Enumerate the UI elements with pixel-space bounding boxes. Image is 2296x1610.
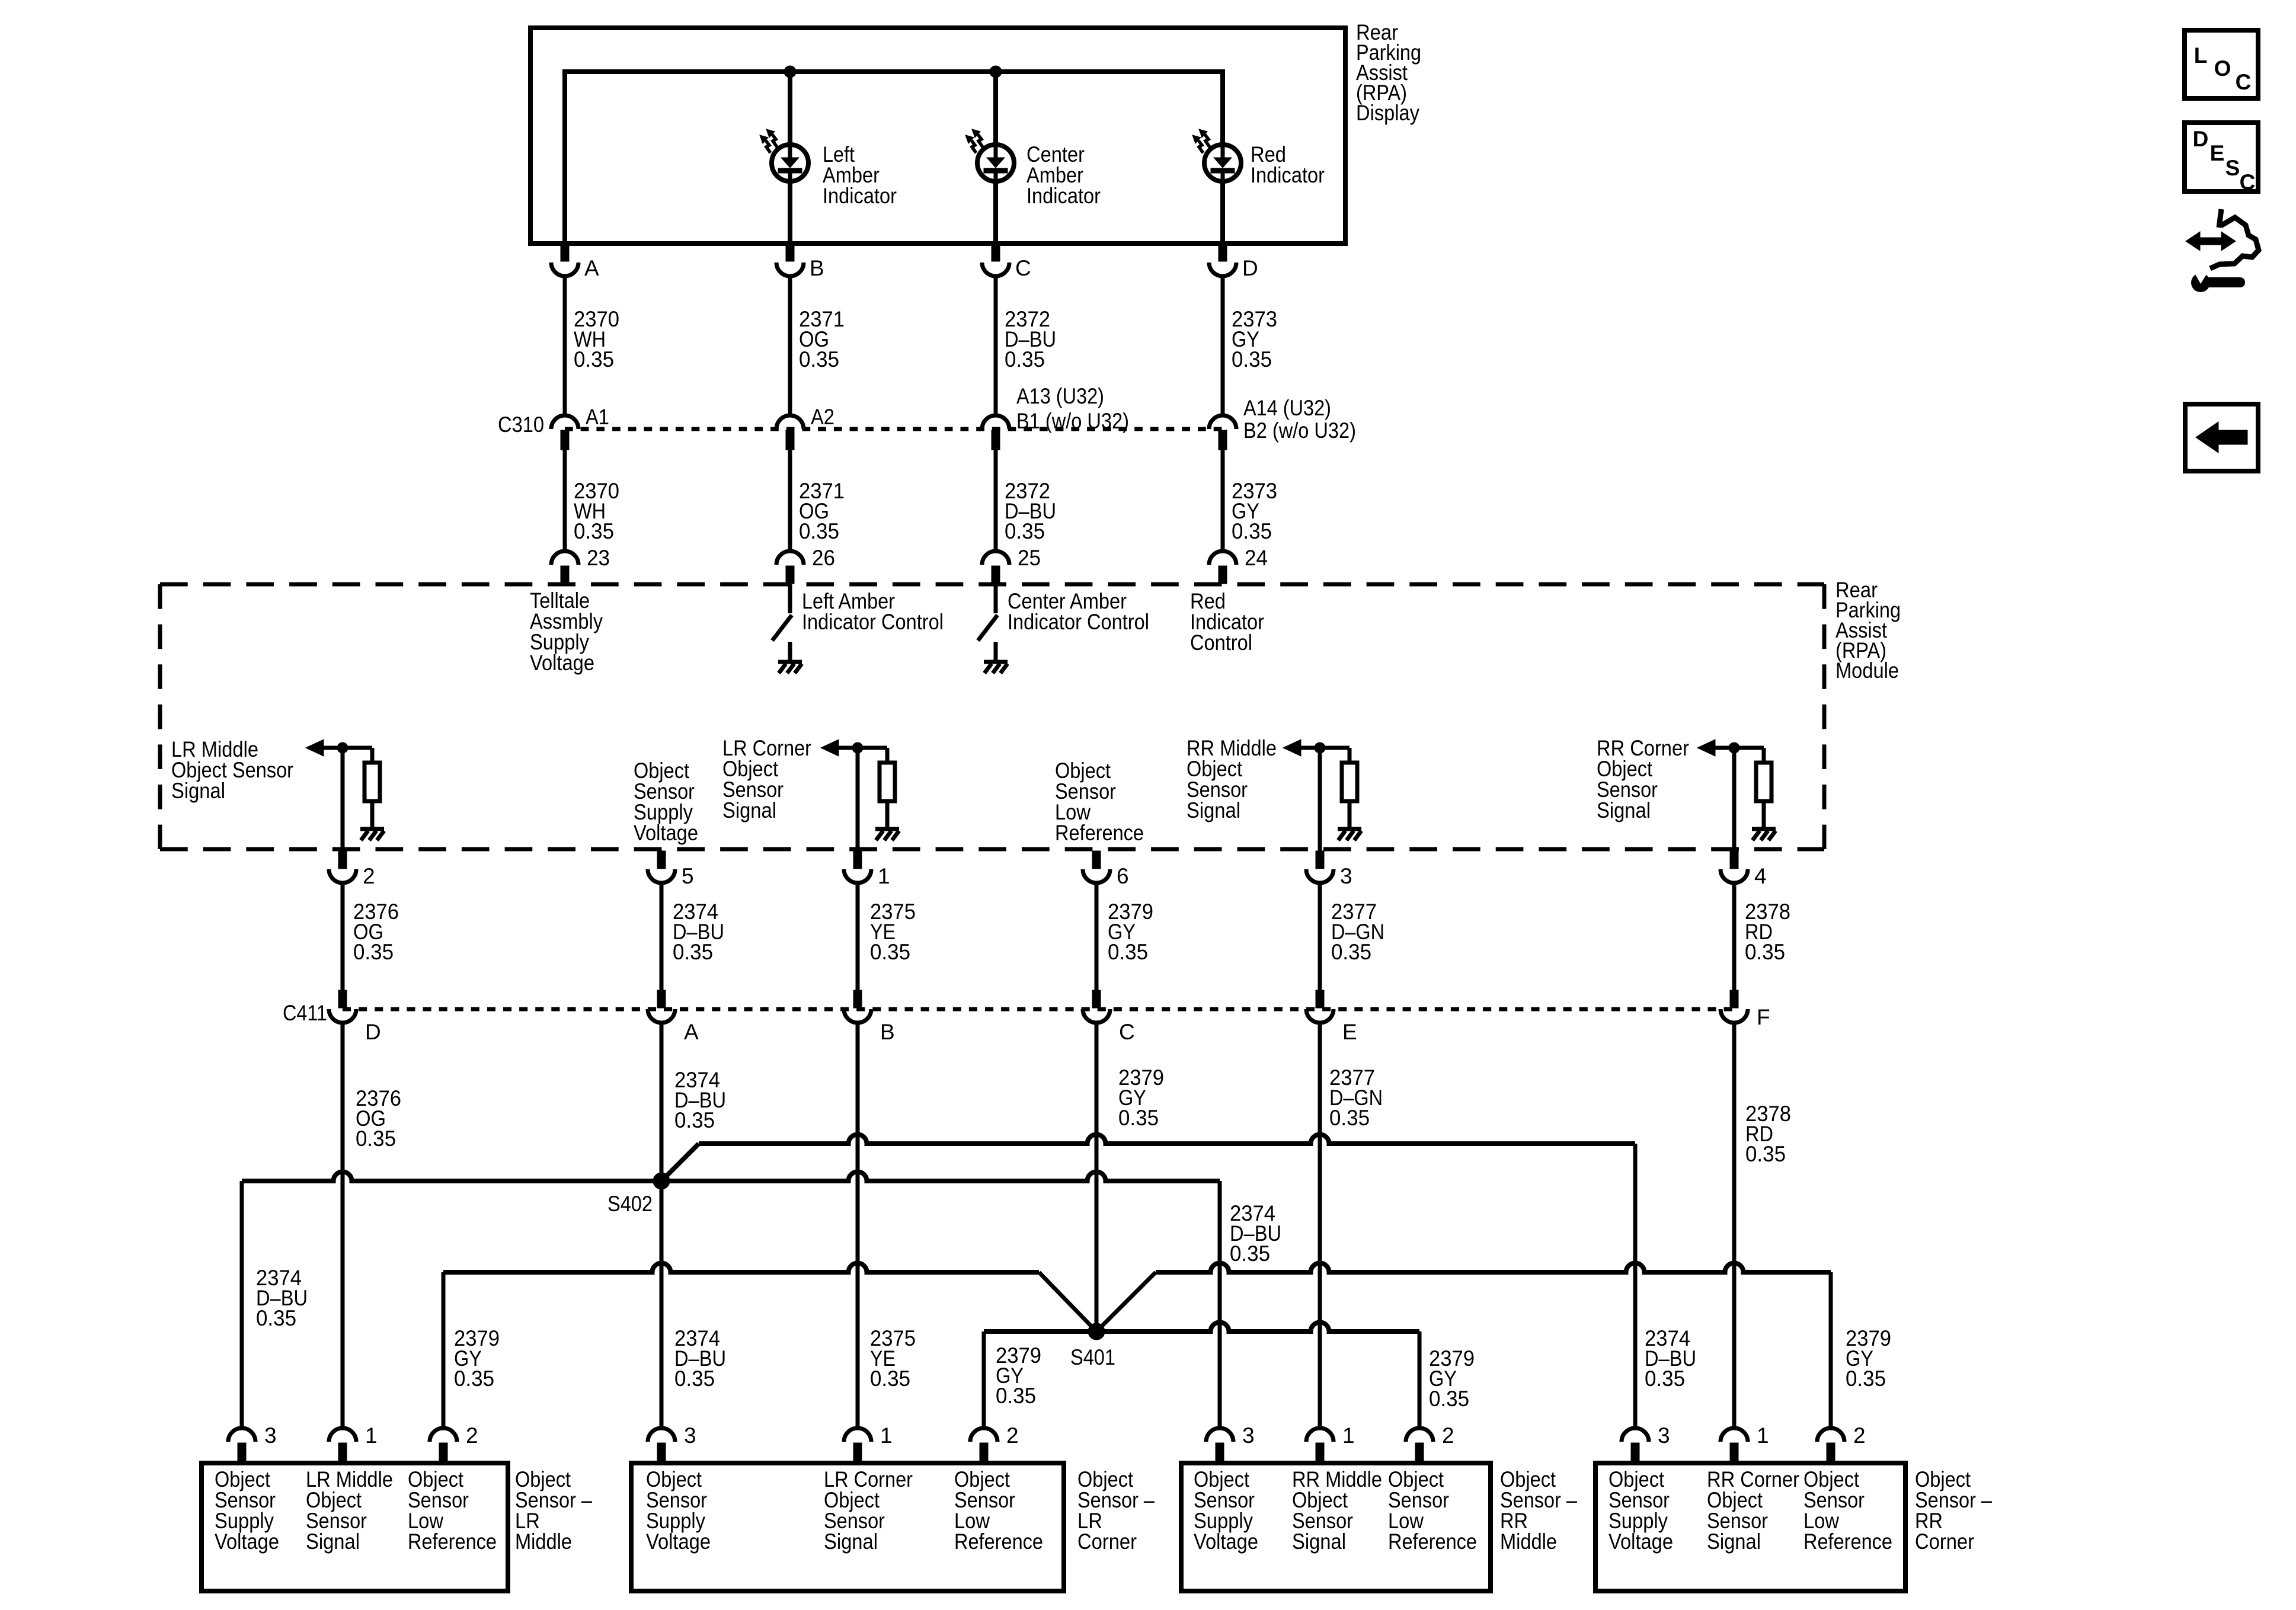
sensor signal arrow at x=2227 [1283, 740, 1301, 756]
sensor box pin 3 at x=1116 [648, 1428, 675, 1442]
svg-text:A1: A1 [586, 405, 609, 429]
svg-text:Signal: Signal [171, 779, 225, 803]
wire C C411 to splice S401 [1095, 1023, 1099, 1331]
svg-text:Corner: Corner [1077, 1529, 1137, 1554]
svg-text:0.35: 0.35 [1230, 1241, 1270, 1266]
sensor signal node at x=2926 [1729, 742, 1739, 753]
diagnostic icon wrench [2191, 273, 2210, 292]
svg-text:23: 23 [587, 546, 610, 570]
svg-text:D: D [1242, 256, 1258, 280]
ground symbol under resistor x=1447 [875, 827, 899, 831]
sensor box pin 1 at x=578 [329, 1428, 356, 1442]
wire below C310 at x=2063 [1221, 450, 1225, 551]
low reference bus line right part [1156, 1263, 1831, 1273]
display connector pin B [786, 246, 794, 261]
resistor at x=2926 [1762, 748, 1766, 763]
sensor signal arrow at x=1447 [821, 740, 839, 756]
svg-text:1: 1 [1757, 1423, 1769, 1448]
upper supply bus line to RR corner [699, 1135, 1635, 1144]
wire left amber upper [788, 69, 792, 144]
svg-text:E: E [1342, 1020, 1357, 1044]
module bottom pin 1 [853, 851, 862, 869]
svg-text:0.35: 0.35 [356, 1126, 396, 1151]
wire from module pin 1 down [856, 883, 860, 990]
wire from module pin 6 down [1095, 883, 1099, 990]
connector C310 pin at x=1680 [982, 415, 1009, 429]
svg-text:Control: Control [1190, 630, 1252, 655]
wire below C310 at x=1333 [788, 450, 792, 551]
connector C411 pin A [657, 990, 666, 1008]
svg-text:3: 3 [1658, 1423, 1670, 1448]
svg-text:Signal: Signal [722, 798, 776, 822]
svg-text:D: D [365, 1020, 381, 1044]
switch at x=1680 [994, 584, 998, 613]
svg-text:Signal: Signal [1292, 1529, 1346, 1554]
svg-text:Voltage: Voltage [634, 821, 698, 845]
svg-text:Voltage: Voltage [1194, 1529, 1258, 1554]
svg-text:0.35: 0.35 [1745, 1142, 1786, 1166]
wire from module pin 3 down [1318, 883, 1322, 990]
svg-text:4: 4 [1754, 864, 1767, 888]
DESC icon box [2185, 123, 2258, 191]
ground lead under switch x=1680 [994, 642, 998, 660]
svg-text:0.35: 0.35 [454, 1366, 494, 1391]
svg-text:0.35: 0.35 [996, 1384, 1036, 1408]
svg-text:1: 1 [880, 1423, 893, 1448]
sensor box pin 3 at x=408 [228, 1428, 255, 1442]
svg-text:1: 1 [1342, 1423, 1355, 1448]
signal wire down to module pin x=2227 [1318, 748, 1322, 851]
diagnostic icon double arrow [2186, 232, 2236, 251]
wire from module pin 4 down [1732, 883, 1737, 990]
svg-text:2: 2 [1006, 1423, 1019, 1448]
supply branch down to RR middle pin 3 [1218, 1181, 1222, 1426]
node bus-B [784, 66, 796, 78]
svg-text:C411: C411 [283, 1001, 327, 1025]
svg-text:Signal: Signal [1187, 798, 1240, 822]
module bottom pin 2 [338, 851, 347, 869]
svg-text:Reference: Reference [1388, 1529, 1477, 1554]
LED left amber [772, 145, 808, 181]
svg-text:0.35: 0.35 [1329, 1106, 1370, 1130]
svg-text:24: 24 [1245, 546, 1268, 570]
svg-text:Signal: Signal [1597, 798, 1651, 822]
ground symbol under resistor x=2227 [1338, 827, 1361, 831]
sensor box pin 1 at x=2227 [1306, 1428, 1334, 1442]
svg-text:A: A [684, 1020, 699, 1044]
svg-text:0.35: 0.35 [256, 1306, 296, 1330]
sensor box pin 2 at x=1660 [970, 1428, 997, 1442]
svg-text:Middle: Middle [1500, 1529, 1557, 1554]
svg-text:Indicator Control: Indicator Control [802, 610, 944, 634]
svg-text:S: S [2225, 156, 2240, 180]
svg-text:Middle: Middle [515, 1529, 572, 1554]
ground symbol under switch x=1333 [778, 660, 802, 664]
svg-text:D: D [2193, 127, 2209, 151]
svg-text:2: 2 [363, 864, 375, 888]
resistor at x=1447 [885, 748, 890, 763]
module pin 24 [1209, 551, 1236, 565]
svg-text:0.35: 0.35 [574, 347, 614, 372]
svg-text:5: 5 [682, 864, 694, 888]
svg-text:Reference: Reference [954, 1529, 1043, 1554]
svg-text:S402: S402 [607, 1192, 653, 1216]
low reference branch down to RR corner pin 2 [1829, 1272, 1833, 1426]
svg-text:1: 1 [365, 1423, 378, 1448]
resistor at x=578 [370, 748, 375, 763]
wire 2371 upper segment B [788, 275, 792, 415]
module pin 23 [551, 551, 578, 565]
svg-text:Indicator: Indicator [1027, 184, 1101, 208]
signal wire down to module pin x=1447 [856, 748, 860, 851]
svg-text:A: A [584, 256, 599, 280]
svg-text:B: B [880, 1020, 895, 1044]
svg-text:0.35: 0.35 [674, 1108, 715, 1132]
display connector pin C [992, 246, 1000, 261]
sensor signal node at x=1447 [852, 742, 863, 753]
svg-text:B: B [810, 256, 824, 280]
svg-text:Signal: Signal [824, 1529, 878, 1554]
svg-text:2: 2 [1442, 1423, 1454, 1448]
wire from module pin 5 down [660, 883, 664, 990]
svg-text:B1 (w/o U32): B1 (w/o U32) [1016, 409, 1129, 433]
splice S402 [653, 1173, 670, 1189]
switch at x=1333 [788, 584, 792, 613]
low reference bus line left part [443, 1263, 1039, 1273]
svg-text:Signal: Signal [1707, 1529, 1761, 1554]
svg-text:S401: S401 [1070, 1345, 1115, 1369]
svg-text:Indicator Control: Indicator Control [1008, 610, 1149, 634]
svg-text:0.35: 0.35 [1118, 1106, 1159, 1130]
svg-text:3: 3 [1340, 864, 1352, 888]
svg-text:3: 3 [264, 1423, 277, 1448]
wire E C411 to RR middle pin 1 [1318, 1023, 1322, 1426]
low reference line S401 to LR corner pin 2 [984, 1329, 1096, 1334]
signal wire down to module pin x=2926 [1732, 748, 1737, 851]
low reference branch down to LR middle pin 2 [442, 1272, 446, 1426]
wire D C411 to LR middle sensor pin 1 [341, 1023, 345, 1426]
signal wire down to module pin x=578 [341, 748, 345, 851]
svg-text:Indicator: Indicator [1251, 163, 1325, 187]
svg-text:0.35: 0.35 [799, 519, 839, 543]
sensor signal arrow at x=578 [306, 740, 324, 756]
sensor signal node at x=578 [337, 742, 348, 753]
node bus-C [990, 66, 1002, 78]
connector C310 dashed line [565, 427, 1223, 431]
svg-text:1: 1 [878, 864, 890, 888]
svg-text:Reference: Reference [408, 1529, 497, 1554]
svg-text:0.35: 0.35 [1232, 347, 1272, 372]
wire B C411 to LR corner pin 1 [856, 1023, 860, 1426]
connector C411 pin F [1730, 990, 1738, 1008]
svg-text:0.35: 0.35 [1645, 1366, 1685, 1391]
svg-text:0.35: 0.35 [1005, 519, 1045, 543]
svg-text:C: C [1119, 1020, 1135, 1044]
module bottom pin 4 [1730, 851, 1738, 869]
wire red lower [1220, 181, 1225, 244]
supply bus line through S402 [242, 1172, 1220, 1182]
supply branch down to LR middle pin 3 [240, 1181, 244, 1426]
low reference bus diagonal from S401 right [1096, 1272, 1156, 1331]
svg-text:L: L [2194, 43, 2208, 68]
display supply bus wire [565, 69, 1223, 74]
sensor box outline [1595, 1463, 1905, 1591]
svg-text:3: 3 [1242, 1423, 1255, 1448]
connector C411 pin E [1316, 990, 1324, 1008]
LED red [1204, 145, 1241, 181]
svg-text:0.35: 0.35 [1331, 940, 1371, 964]
ground lead under switch x=1333 [788, 642, 792, 660]
connector C411 pin D [338, 990, 347, 1008]
svg-text:Indicator: Indicator [823, 184, 897, 208]
svg-text:0.35: 0.35 [1232, 519, 1272, 543]
svg-text:0.35: 0.35 [1846, 1366, 1886, 1391]
svg-text:2: 2 [466, 1423, 478, 1448]
wire 2373 upper segment D [1221, 275, 1225, 415]
wire F C411 to RR corner pin 1 [1732, 1023, 1737, 1426]
svg-text:Voltage: Voltage [646, 1529, 711, 1554]
back arrow icon [2196, 422, 2247, 453]
svg-text:A2: A2 [811, 405, 834, 429]
svg-text:Corner: Corner [1915, 1529, 1974, 1554]
svg-text:Reference: Reference [1803, 1529, 1892, 1554]
svg-text:C: C [2240, 170, 2256, 194]
svg-text:0.35: 0.35 [1005, 347, 1045, 372]
splice S401 [1088, 1323, 1105, 1340]
svg-text:Reference: Reference [1055, 821, 1144, 845]
wire A vertical in display [562, 69, 567, 244]
svg-text:0.35: 0.35 [870, 940, 910, 964]
svg-text:Signal: Signal [306, 1529, 360, 1554]
svg-text:0.35: 0.35 [353, 940, 394, 964]
svg-text:E: E [2210, 141, 2225, 165]
resistor at x=2227 [1348, 748, 1352, 763]
svg-text:C310: C310 [498, 412, 544, 437]
sensor box pin 3 at x=2058 [1206, 1428, 1233, 1442]
wire 2370 upper segment A [563, 275, 567, 415]
svg-text:O: O [2214, 56, 2231, 81]
module bottom pin 5 [657, 851, 666, 869]
svg-text:Module: Module [1835, 658, 1899, 683]
sensor box pin 3 at x=2759 [1622, 1428, 1649, 1442]
connector C411 dashed line [343, 1007, 1734, 1012]
module pin 25 [982, 551, 1009, 565]
sensor box pin 1 at x=2926 [1721, 1428, 1748, 1442]
svg-text:26: 26 [812, 546, 835, 570]
sensor box pin 2 at x=2395 [1406, 1428, 1433, 1442]
svg-text:0.35: 0.35 [870, 1366, 910, 1391]
bus from S402 diagonal to upper supply line [661, 1144, 699, 1181]
wire below C310 at x=1680 [994, 450, 998, 551]
svg-text:C: C [1015, 256, 1031, 280]
supply branch down to RR corner pin 3 [1633, 1144, 1638, 1426]
low reference line S401 to RR middle pin 2 [1096, 1323, 1419, 1332]
module bottom pin 6 [1092, 851, 1101, 869]
module pin 26 [776, 551, 804, 565]
svg-text:B2 (w/o U32): B2 (w/o U32) [1243, 418, 1356, 443]
LED red light arrows [1205, 135, 1210, 147]
LED center amber [977, 145, 1014, 181]
wire below C310 at x=953 [563, 450, 567, 551]
svg-text:0.35: 0.35 [574, 519, 614, 543]
svg-text:2: 2 [1853, 1423, 1866, 1448]
svg-text:F: F [1757, 1005, 1770, 1029]
svg-text:6: 6 [1117, 864, 1129, 888]
connector C310 pin at x=1333 [776, 415, 804, 429]
svg-text:Voltage: Voltage [530, 651, 594, 675]
module bottom pin 3 [1316, 851, 1324, 869]
wire 2372 upper segment C [994, 275, 998, 415]
svg-text:25: 25 [1018, 546, 1041, 570]
RPA Display box [530, 28, 1345, 244]
LED center amber light arrows [978, 135, 983, 147]
wire center amber lower [993, 181, 998, 244]
ground symbol under resistor x=578 [360, 827, 384, 831]
LOC icon box [2185, 30, 2258, 98]
sensor box outline [631, 1463, 1064, 1591]
wire A C411 through S402 to LR corner pin 3 [660, 1023, 664, 1426]
sensor signal arrow at x=2926 [1697, 740, 1715, 756]
display connector pin D [1219, 246, 1227, 261]
svg-text:3: 3 [684, 1423, 696, 1448]
sensor box outline [202, 1463, 508, 1591]
ground symbol under resistor x=2926 [1752, 827, 1776, 831]
sensor box outline [1181, 1463, 1491, 1591]
connector C411 pin B [853, 990, 862, 1008]
svg-text:A14 (U32): A14 (U32) [1243, 396, 1331, 420]
wire left amber lower [788, 181, 792, 244]
svg-text:A13 (U32): A13 (U32) [1016, 384, 1104, 408]
back arrow icon box [2185, 404, 2258, 471]
RPA Module dashed box [160, 582, 1824, 587]
wire from module pin 2 down [341, 883, 345, 990]
sensor signal node at x=2227 [1315, 742, 1325, 753]
diagnostic icon connector outline [2210, 209, 2259, 268]
connector C411 pin C [1092, 990, 1101, 1008]
svg-text:0.35: 0.35 [799, 347, 839, 372]
sensor box pin 2 at x=3089 [1817, 1428, 1844, 1442]
ground symbol under switch x=1680 [984, 660, 1008, 664]
svg-text:Voltage: Voltage [215, 1529, 279, 1554]
wire red upper [1220, 69, 1225, 144]
LED left amber light arrows [772, 135, 777, 147]
low reference bus diagonal into S401 left [1039, 1272, 1096, 1331]
connector C310 pin at x=2063 [1209, 415, 1236, 429]
svg-text:0.35: 0.35 [1108, 940, 1148, 964]
svg-text:0.35: 0.35 [1745, 940, 1785, 964]
svg-text:0.35: 0.35 [674, 1366, 715, 1391]
sensor box pin 2 at x=748 [430, 1428, 457, 1442]
svg-text:0.35: 0.35 [673, 940, 713, 964]
svg-text:Voltage: Voltage [1609, 1529, 1673, 1554]
sensor box pin 1 at x=1447 [844, 1428, 871, 1442]
svg-text:0.35: 0.35 [1429, 1387, 1469, 1411]
svg-text:Display: Display [1356, 101, 1419, 125]
svg-text:C: C [2236, 70, 2252, 94]
wire center amber upper [993, 69, 998, 144]
display connector pin A [561, 246, 569, 261]
connector C310 pin at x=953 [551, 415, 578, 429]
